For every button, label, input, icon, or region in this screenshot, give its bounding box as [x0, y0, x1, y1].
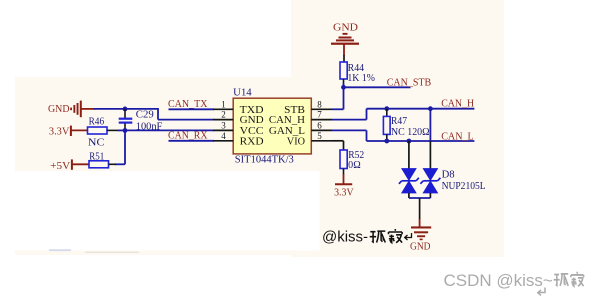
svg-text:R51: R51 — [89, 151, 104, 162]
svg-text:C29: C29 — [136, 110, 154, 121]
svg-text:NUP2105L: NUP2105L — [442, 181, 486, 192]
wire diode bottoms to common — [409, 193, 431, 198]
svg-text:R47: R47 — [391, 116, 407, 127]
wire VCC net from junction to chip pin 3 — [125, 129, 214, 131]
wire pin5 to R52 — [332, 141, 344, 150]
wire artifact smudge bottom left — [49, 249, 71, 251]
svg-text:STB: STB — [284, 105, 305, 116]
wire CAN_H bus — [367, 108, 475, 110]
capacitor C29 — [119, 109, 133, 130]
svg-text:0Ω: 0Ω — [348, 160, 361, 171]
svg-text:NC 120Ω: NC 120Ω — [391, 127, 430, 138]
svg-text:D8: D8 — [442, 169, 455, 180]
watermark CSDN @kiss~guji gray — [444, 271, 584, 296]
svg-text:GND: GND — [48, 104, 70, 115]
resistor R46 — [88, 127, 126, 134]
resistor R47 — [383, 109, 390, 141]
wire GND net from left ground symbol (red stub then blue) — [81, 108, 158, 110]
watermark @kiss-guji black — [322, 228, 402, 245]
node junction R47 bottom on CAN_L — [384, 139, 389, 144]
wire pin7 to CAN_H — [332, 109, 367, 120]
pin 5 stub — [311, 140, 332, 142]
power port 3.3V left — [49, 126, 89, 138]
svg-text:VCC: VCC — [240, 126, 264, 137]
ground GND bottom power symbol — [410, 226, 431, 252]
node junction R44 / CAN_STB / pin8 — [341, 85, 346, 90]
pin 7 stub — [311, 119, 332, 121]
svg-text:4: 4 — [221, 131, 226, 141]
watermark return arrow black — [405, 233, 412, 240]
node junction right diode on CAN_H — [428, 106, 433, 111]
svg-text:CSDN @kiss~: CSDN @kiss~ — [444, 271, 553, 290]
svg-text:NC: NC — [88, 138, 105, 149]
svg-text:3: 3 — [221, 120, 226, 130]
svg-text:SIT1044TK/3: SIT1044TK/3 — [235, 154, 294, 165]
svg-text:1K 1%: 1K 1% — [347, 73, 375, 84]
svg-text:6: 6 — [317, 120, 322, 130]
svg-text:+5V: +5V — [50, 161, 70, 172]
power port +5V left — [50, 159, 90, 172]
node junction R47 top on CAN_H — [384, 106, 389, 111]
wire CAN_TX to chip pin 1 — [169, 108, 215, 110]
svg-text:VIO: VIO — [287, 136, 306, 147]
wire CAN_H down to right diode — [429, 109, 431, 170]
pin 6 stub — [311, 129, 332, 131]
op-amp U14 chip body SIT1044TK/3 — [233, 98, 311, 154]
pin 3 stub — [213, 129, 233, 131]
wire pin8 to junction — [332, 87, 344, 109]
pin 4 stub — [213, 140, 233, 142]
wire GND to R44 (red then black) — [343, 45, 345, 63]
node junction C29 top on GND net — [123, 107, 128, 112]
svg-text:3.3V: 3.3V — [334, 188, 354, 199]
pin 8 stub — [311, 108, 332, 110]
node junction left diode on CAN_L — [407, 139, 412, 144]
svg-text:GND: GND — [410, 241, 431, 252]
svg-text:CAN_H: CAN_H — [441, 98, 474, 109]
pin 1 stub — [213, 108, 233, 110]
wire CAN_STB horizontal — [344, 86, 411, 88]
svg-text:GND: GND — [333, 23, 358, 34]
wire GND net vertical corner down to pin2 row — [158, 108, 214, 120]
svg-text:CAN_STB: CAN_STB — [387, 77, 432, 88]
svg-text:TXD: TXD — [240, 105, 264, 116]
wire CAN_L down to left diode — [408, 141, 410, 170]
wire pin6 to CAN_L — [332, 130, 367, 141]
svg-text:3.3V: 3.3V — [49, 127, 70, 138]
svg-text:7: 7 — [317, 110, 322, 120]
diode D8 left TVS pair — [399, 169, 419, 194]
resistor R51 — [89, 161, 116, 168]
svg-text:CAN_H: CAN_H — [269, 115, 306, 126]
svg-text:5: 5 — [317, 131, 322, 141]
svg-text:RXD: RXD — [240, 136, 264, 147]
ground GND top power symbol — [331, 23, 359, 45]
svg-text:R46: R46 — [89, 116, 105, 127]
svg-text:U14: U14 — [233, 88, 252, 99]
pin 2 stub — [213, 119, 233, 121]
svg-text:@kiss-: @kiss- — [322, 228, 368, 245]
svg-text:2: 2 — [221, 110, 226, 120]
svg-text:1: 1 — [221, 99, 226, 109]
wire common to bottom ground — [419, 198, 421, 227]
ground GND left power symbol — [48, 101, 82, 118]
wire CAN_L bus — [367, 140, 475, 142]
wire CAN_RX to chip pin 4 — [169, 140, 215, 142]
node junction C29 bottom / VCC net — [123, 128, 128, 133]
svg-text:GND: GND — [240, 115, 264, 126]
svg-text:CAN_L: CAN_L — [441, 131, 474, 142]
resistor R44 — [340, 62, 347, 87]
svg-text:GAN_L: GAN_L — [269, 126, 305, 137]
resistor R52 — [340, 150, 347, 175]
power port 3.3V bottom — [334, 174, 354, 199]
wire from junction down to R51 — [115, 130, 125, 164]
diode D8 right TVS pair — [420, 169, 440, 194]
svg-text:8: 8 — [317, 99, 322, 109]
